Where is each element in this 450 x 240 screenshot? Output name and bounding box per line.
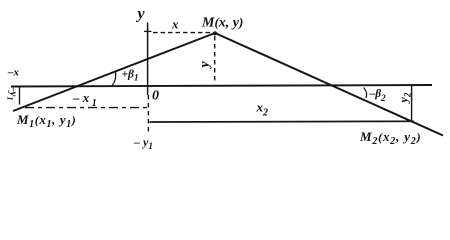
y-axis dashed extension below origin xyxy=(147,95,149,135)
wire dashed ordinate line from M down to x-axis xyxy=(214,36,216,84)
svg-text:x: x xyxy=(171,17,179,32)
svg-text:0: 0 xyxy=(152,89,159,104)
svg-text:y: y xyxy=(198,61,213,70)
svg-text:M1(x1, y1): M1(x1, y1) xyxy=(16,112,76,130)
svg-text:M(x, y): M(x, y) xyxy=(201,15,243,31)
line M to M2 xyxy=(215,33,443,136)
svg-text:x2: x2 xyxy=(256,100,269,119)
wire dash-dot line -x1 from M1 to y-axis xyxy=(25,107,147,109)
svg-text:–β2: –β2 xyxy=(369,88,387,103)
angle arc beta2 xyxy=(364,88,367,99)
angle arc beta1 xyxy=(112,72,116,86)
wire short vertical segment at left (y1 depth) xyxy=(19,87,21,105)
svg-text:– x 1: – x 1 xyxy=(72,90,97,109)
wire dashed abscissa line from y-axis to M xyxy=(153,32,212,34)
svg-text:– y1: – y1 xyxy=(133,135,153,151)
svg-text:–y1: –y1 xyxy=(6,85,20,101)
wire x2 dimension line below axis xyxy=(150,120,415,123)
svg-text:y: y xyxy=(136,6,146,23)
svg-text:M2(x2, y2): M2(x2, y2) xyxy=(359,129,421,147)
line M to M1 xyxy=(13,33,215,111)
svg-text:+β1: +β1 xyxy=(122,69,139,83)
y-axis xyxy=(147,23,149,96)
svg-text:–x: –x xyxy=(7,67,20,79)
x-axis xyxy=(11,85,432,87)
y-axis tick at ordinate of M xyxy=(144,30,152,32)
point M vertex dot xyxy=(213,31,217,35)
wire y2 vertical segment at M2 xyxy=(411,86,413,121)
svg-text:y2: y2 xyxy=(397,92,413,104)
